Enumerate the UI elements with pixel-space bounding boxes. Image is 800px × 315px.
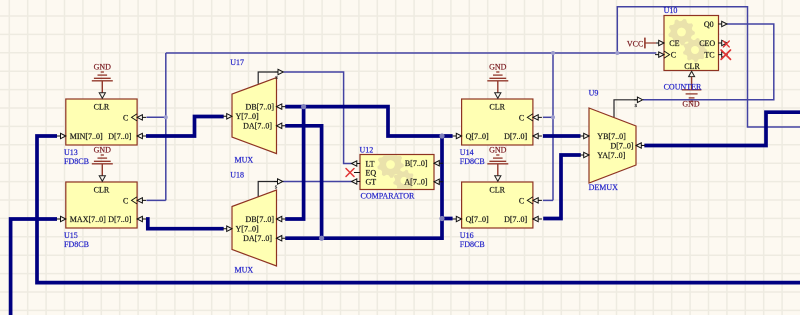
- svg-text:GT: GT: [366, 177, 377, 186]
- svg-text:U16: U16: [460, 231, 474, 240]
- svg-text:D[7..0]: D[7..0]: [504, 215, 527, 224]
- svg-text:U15: U15: [64, 231, 78, 240]
- svg-text:A[7..0]: A[7..0]: [404, 178, 427, 187]
- svg-text:EQ: EQ: [366, 168, 377, 177]
- svg-text:D[7..0]: D[7..0]: [610, 141, 633, 150]
- svg-text:GND: GND: [489, 145, 507, 154]
- svg-text:YB[7..0]: YB[7..0]: [597, 132, 626, 141]
- svg-text:U13: U13: [64, 148, 78, 157]
- svg-text:GND: GND: [682, 100, 700, 109]
- svg-text:MUX: MUX: [235, 266, 254, 275]
- svg-text:CLR: CLR: [489, 102, 505, 111]
- svg-text:CE: CE: [669, 39, 679, 48]
- svg-text:MIN[7..0]: MIN[7..0]: [70, 132, 103, 141]
- svg-text:CLR: CLR: [684, 62, 700, 71]
- svg-text:Q[7..0]: Q[7..0]: [466, 215, 489, 224]
- svg-text:COUNTER: COUNTER: [664, 82, 702, 91]
- svg-text:Q0: Q0: [704, 20, 714, 29]
- svg-text:FD8CB: FD8CB: [460, 240, 485, 249]
- svg-text:TC: TC: [704, 51, 714, 60]
- svg-text:COMPARATOR: COMPARATOR: [361, 192, 415, 201]
- svg-text:FD8CB: FD8CB: [460, 157, 485, 166]
- svg-text:DB[7..0]: DB[7..0]: [246, 215, 275, 224]
- svg-text:DEMUX: DEMUX: [589, 183, 619, 192]
- svg-text:GND: GND: [489, 62, 507, 71]
- svg-text:U18: U18: [230, 170, 244, 179]
- svg-text:FD8CB: FD8CB: [64, 240, 89, 249]
- svg-text:DA[7..0]: DA[7..0]: [243, 122, 272, 131]
- svg-text:C: C: [519, 196, 524, 205]
- svg-text:CEO: CEO: [699, 39, 715, 48]
- svg-text:GND: GND: [94, 62, 112, 71]
- svg-text:C: C: [123, 196, 128, 205]
- svg-text:U17: U17: [230, 58, 244, 67]
- svg-text:GND: GND: [94, 145, 112, 154]
- svg-text:DA[7..0]: DA[7..0]: [243, 234, 272, 243]
- svg-text:FD8CB: FD8CB: [64, 157, 89, 166]
- svg-text:Q[7..0]: Q[7..0]: [466, 132, 489, 141]
- svg-text:D[7..0]: D[7..0]: [108, 215, 131, 224]
- svg-text:U12: U12: [360, 146, 374, 155]
- svg-text:D[7..0]: D[7..0]: [504, 132, 527, 141]
- svg-text:U10: U10: [664, 6, 678, 15]
- svg-text:C: C: [123, 113, 128, 122]
- svg-text:CLR: CLR: [489, 185, 505, 194]
- svg-text:VCC: VCC: [627, 39, 643, 48]
- svg-text:LT: LT: [366, 159, 375, 168]
- svg-text:C: C: [519, 113, 524, 122]
- svg-text:U14: U14: [460, 148, 474, 157]
- svg-text:CLR: CLR: [94, 102, 110, 111]
- svg-text:D[7..0]: D[7..0]: [108, 132, 131, 141]
- svg-text:DB[7..0]: DB[7..0]: [246, 103, 275, 112]
- svg-text:C: C: [671, 51, 676, 60]
- svg-text:B[7..0]: B[7..0]: [405, 159, 428, 168]
- svg-text:Y[7..0]: Y[7..0]: [236, 112, 259, 121]
- svg-text:Y[7..0]: Y[7..0]: [236, 225, 259, 234]
- svg-text:MAX[7..0]: MAX[7..0]: [70, 215, 106, 224]
- svg-text:MUX: MUX: [235, 155, 254, 164]
- svg-text:CLR: CLR: [94, 185, 110, 194]
- svg-text:YA[7..0]: YA[7..0]: [597, 151, 625, 160]
- svg-text:U9: U9: [589, 89, 599, 98]
